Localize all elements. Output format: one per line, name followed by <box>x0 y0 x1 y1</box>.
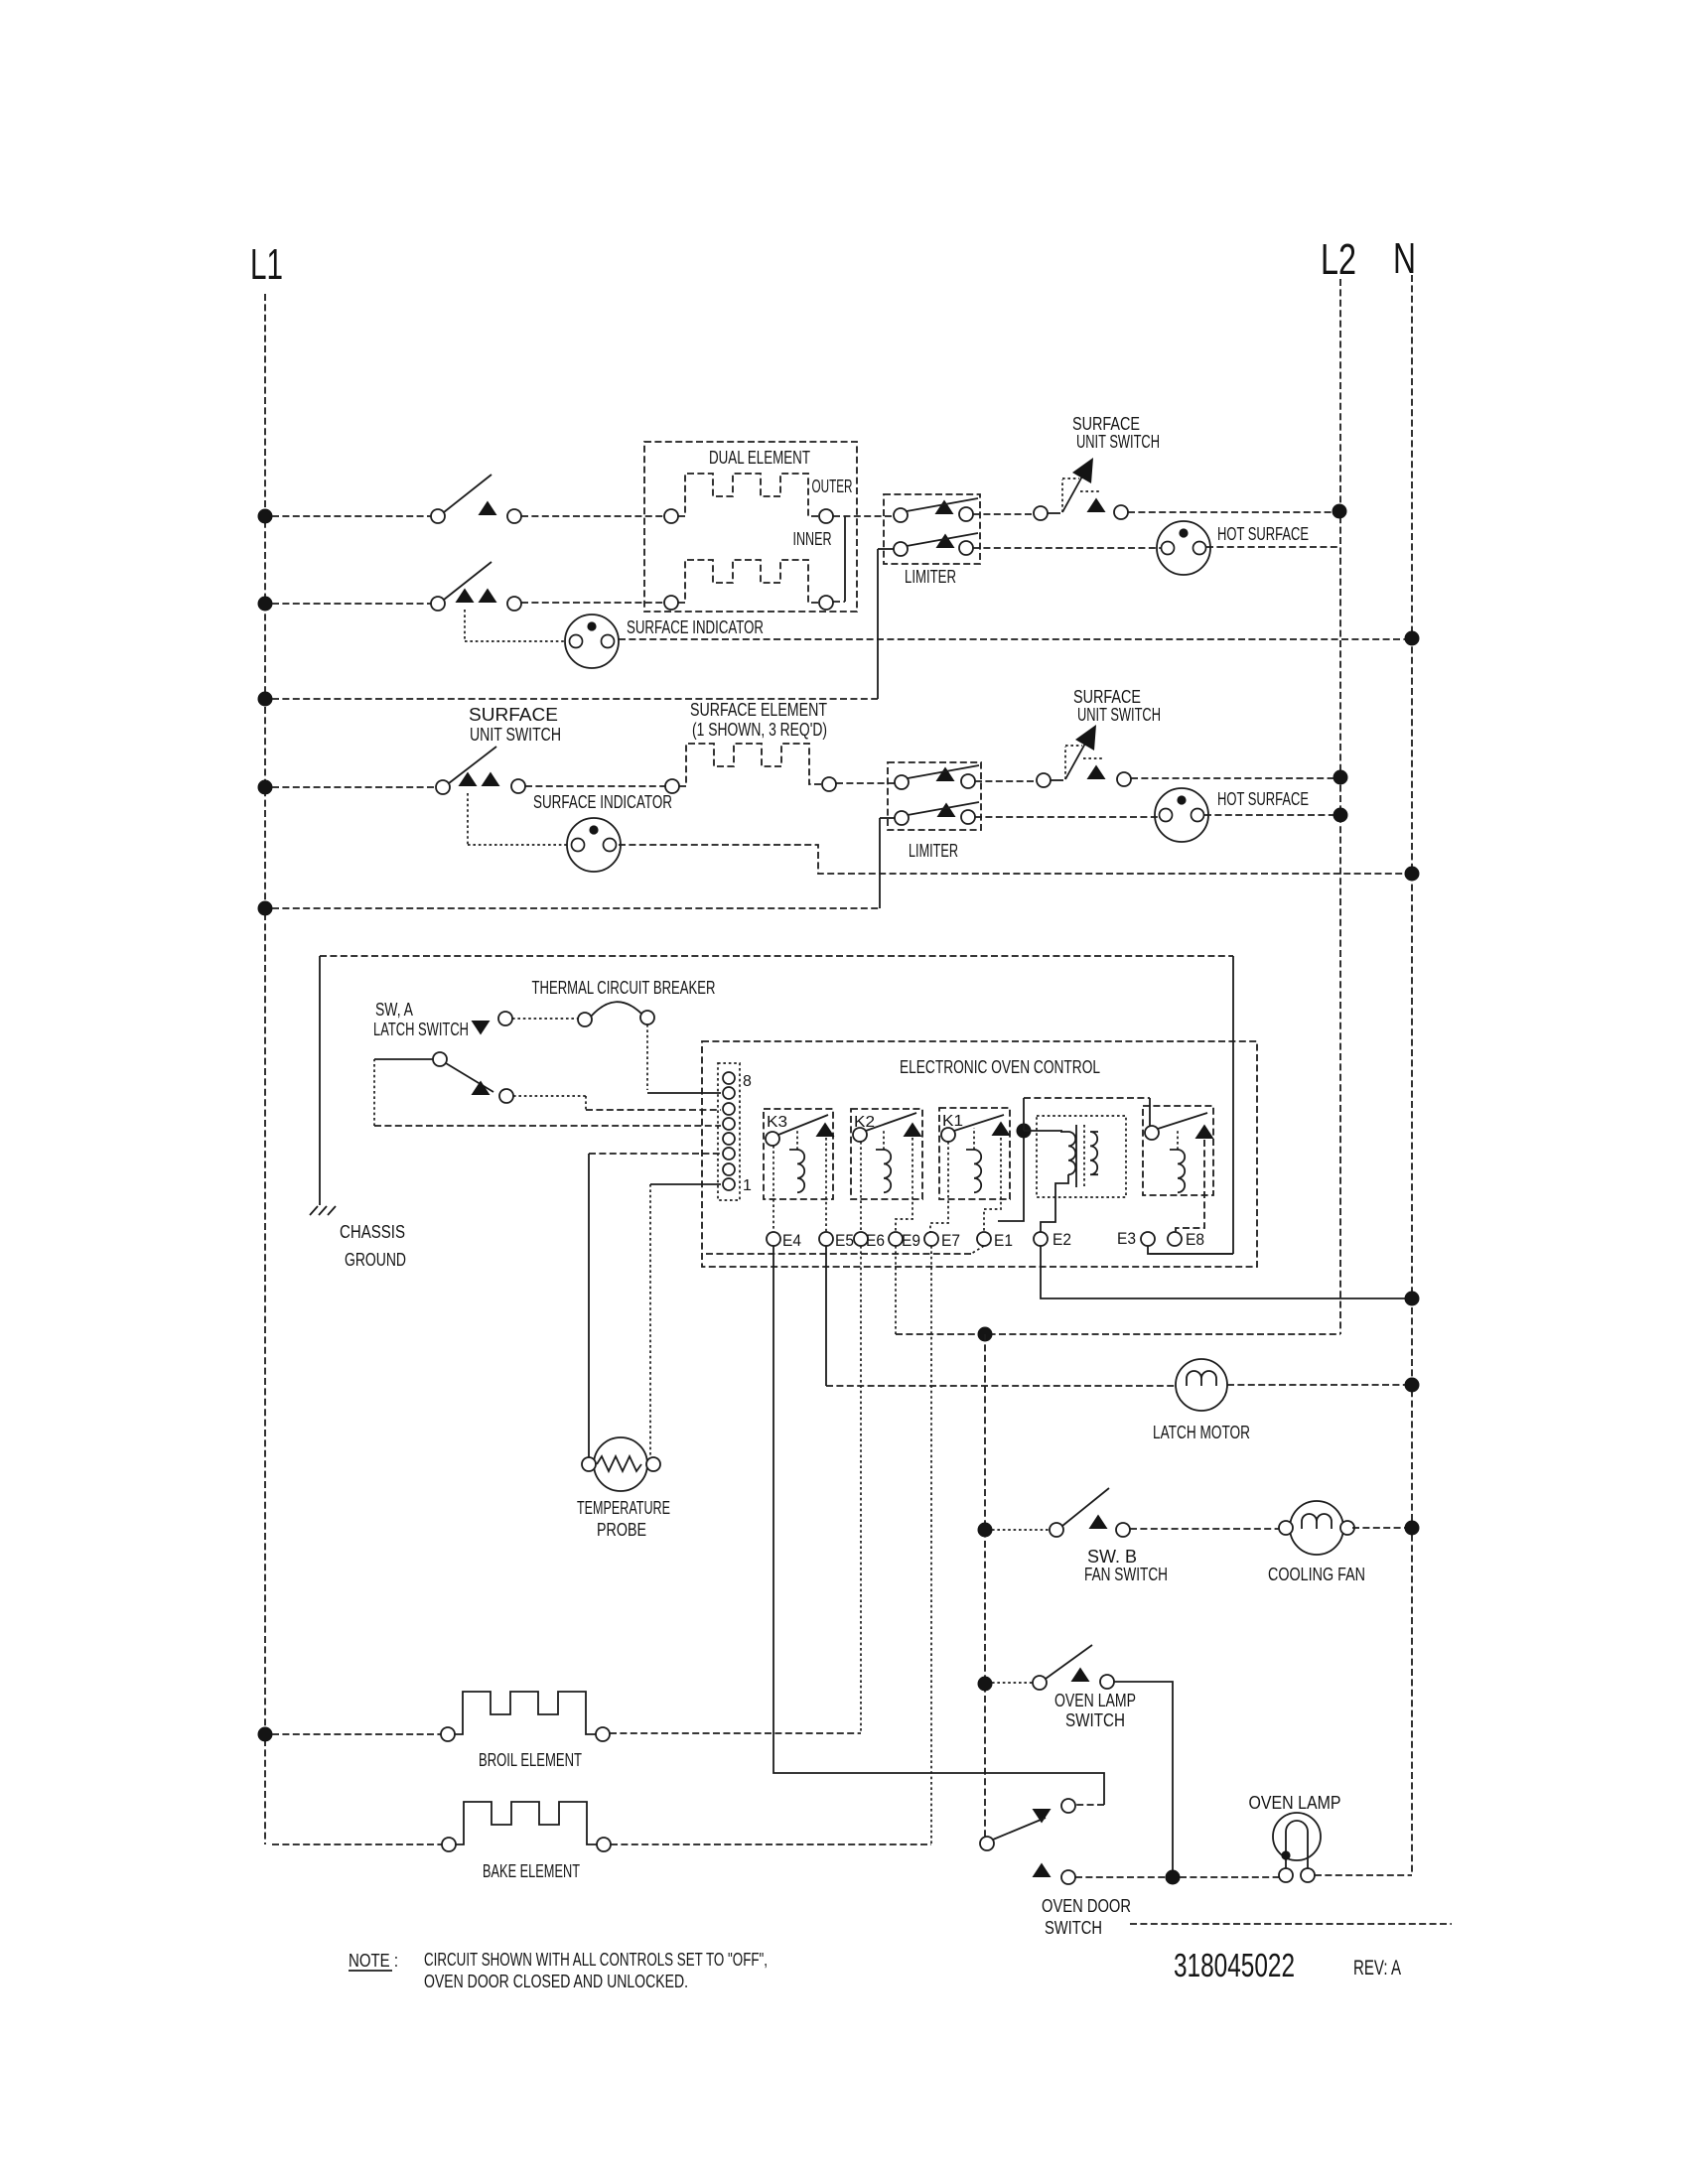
svg-text:NOTE :: NOTE : <box>349 1951 398 1971</box>
svg-text:E1: E1 <box>994 1231 1013 1250</box>
svg-text:L1: L1 <box>250 240 283 289</box>
svg-text:OVEN LAMP: OVEN LAMP <box>1249 1793 1341 1813</box>
svg-text:LIMITER: LIMITER <box>909 841 958 861</box>
svg-text:E4: E4 <box>782 1231 801 1250</box>
svg-text:E7: E7 <box>941 1231 960 1250</box>
svg-text:(1 SHOWN, 3 REQ'D): (1 SHOWN, 3 REQ'D) <box>692 720 827 740</box>
svg-text:GROUND: GROUND <box>345 1250 406 1270</box>
svg-text:E5: E5 <box>835 1231 854 1250</box>
svg-text:1: 1 <box>743 1177 752 1194</box>
svg-text:COOLING FAN: COOLING FAN <box>1268 1565 1365 1584</box>
svg-text:L2: L2 <box>1321 235 1356 284</box>
svg-text:ELECTRONIC OVEN CONTROL: ELECTRONIC OVEN CONTROL <box>900 1057 1100 1077</box>
svg-text:SURFACE: SURFACE <box>1072 414 1140 434</box>
svg-text:SURFACE INDICATOR: SURFACE INDICATOR <box>627 617 764 637</box>
svg-text:SURFACE: SURFACE <box>469 705 558 725</box>
svg-text:SW, A: SW, A <box>375 1000 413 1020</box>
svg-text:SWITCH: SWITCH <box>1045 1918 1102 1938</box>
svg-text:UNIT SWITCH: UNIT SWITCH <box>1076 432 1160 452</box>
svg-text:OUTER: OUTER <box>812 477 853 496</box>
svg-text:SURFACE: SURFACE <box>1073 687 1141 707</box>
svg-text:BAKE ELEMENT: BAKE ELEMENT <box>483 1861 580 1881</box>
svg-text:PROBE: PROBE <box>597 1520 646 1540</box>
svg-text:OVEN DOOR CLOSED AND UNLOCKED.: OVEN DOOR CLOSED AND UNLOCKED. <box>424 1972 688 1991</box>
svg-text:SWITCH: SWITCH <box>1065 1710 1125 1730</box>
svg-text:UNIT SWITCH: UNIT SWITCH <box>1077 705 1161 725</box>
svg-text:CIRCUIT SHOWN WITH ALL CONTROL: CIRCUIT SHOWN WITH ALL CONTROLS SET TO "… <box>424 1950 768 1970</box>
svg-text:TEMPERATURE: TEMPERATURE <box>577 1498 670 1518</box>
svg-text:K1: K1 <box>942 1113 963 1130</box>
svg-text:LATCH SWITCH: LATCH SWITCH <box>373 1020 469 1039</box>
svg-text:LIMITER: LIMITER <box>905 567 956 587</box>
svg-text:318045022: 318045022 <box>1174 1947 1295 1983</box>
svg-text:OVEN DOOR: OVEN DOOR <box>1042 1896 1131 1916</box>
svg-text:HOT SURFACE: HOT SURFACE <box>1217 789 1309 809</box>
svg-text:SW. B: SW. B <box>1087 1547 1137 1567</box>
svg-text:E9: E9 <box>902 1231 920 1250</box>
svg-text:THERMAL CIRCUIT BREAKER: THERMAL CIRCUIT BREAKER <box>532 978 716 998</box>
svg-text:N: N <box>1393 234 1416 283</box>
svg-text:LATCH MOTOR: LATCH MOTOR <box>1153 1423 1250 1442</box>
svg-text:CHASSIS: CHASSIS <box>340 1222 405 1242</box>
svg-text:UNIT SWITCH: UNIT SWITCH <box>470 725 561 745</box>
svg-text:SURFACE ELEMENT: SURFACE ELEMENT <box>690 700 827 720</box>
svg-text:E2: E2 <box>1052 1230 1071 1249</box>
svg-text:DUAL ELEMENT: DUAL ELEMENT <box>709 448 810 468</box>
svg-text:REV: A: REV: A <box>1353 1957 1401 1979</box>
svg-text:SURFACE INDICATOR: SURFACE INDICATOR <box>533 792 672 812</box>
svg-text:OVEN LAMP: OVEN LAMP <box>1054 1691 1136 1710</box>
svg-text:FAN SWITCH: FAN SWITCH <box>1084 1565 1168 1584</box>
svg-text:E6: E6 <box>866 1231 885 1250</box>
svg-text:E3: E3 <box>1117 1229 1136 1248</box>
svg-text:K3: K3 <box>767 1114 787 1131</box>
svg-text:E8: E8 <box>1186 1230 1204 1249</box>
svg-text:BROIL ELEMENT: BROIL ELEMENT <box>479 1750 582 1770</box>
svg-text:HOT SURFACE: HOT SURFACE <box>1217 524 1309 544</box>
svg-text:INNER: INNER <box>793 529 832 549</box>
svg-text:8: 8 <box>743 1073 752 1090</box>
